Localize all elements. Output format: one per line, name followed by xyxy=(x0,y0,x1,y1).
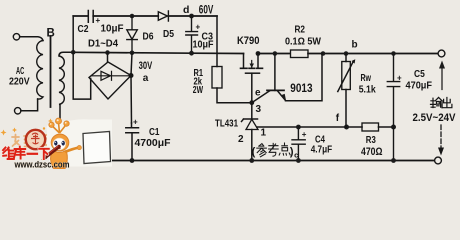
junction ref rail to C5 line xyxy=(391,125,396,130)
junction Rw bottom node f xyxy=(344,125,349,130)
svg-text:a: a xyxy=(143,73,149,84)
9013 bar xyxy=(267,89,284,91)
capacitor C2 xyxy=(88,11,93,23)
svg-text:C2: C2 xyxy=(78,23,89,35)
svg-text:D5: D5 xyxy=(163,28,174,40)
svg-text:d: d xyxy=(183,4,189,16)
node e junction xyxy=(249,100,254,105)
svg-text:3: 3 xyxy=(256,104,262,115)
svg-text:C5: C5 xyxy=(414,68,425,80)
ref rail f xyxy=(257,126,394,128)
junction emitter return xyxy=(321,51,326,56)
AC source terminal top xyxy=(13,34,19,40)
svg-text:220V: 220V xyxy=(9,76,30,88)
svg-text:b: b xyxy=(352,40,358,51)
svg-text:+: + xyxy=(302,130,307,139)
junction 9013 base xyxy=(273,51,278,56)
watermark white backdrop xyxy=(47,119,112,166)
junction secondary/C2 xyxy=(71,50,76,55)
wire bridge right corner to C1 xyxy=(131,53,132,123)
K790 gate plate xyxy=(246,72,260,74)
watermark red stamp xyxy=(26,130,45,149)
wire C2 riser xyxy=(72,16,74,52)
TL431 cathode lead xyxy=(251,103,253,119)
resistor R3 xyxy=(362,123,379,131)
K790 channel segments xyxy=(241,67,263,69)
svg-text:c: c xyxy=(294,150,298,159)
MOSFET K790 drain stub xyxy=(243,54,245,68)
transformer primary winding xyxy=(37,41,43,100)
junction C1 bottom xyxy=(130,158,135,163)
Rw lead bottom xyxy=(345,90,347,128)
wire R1 bottom to node e xyxy=(217,88,252,103)
TL431 triangle xyxy=(246,119,258,129)
30V rail xyxy=(73,52,243,53)
junction bridge right corner node a xyxy=(129,73,134,78)
svg-text:10μF: 10μF xyxy=(193,39,214,51)
wire secondary bottom to ground rail xyxy=(59,104,61,160)
svg-text:R3: R3 xyxy=(366,134,376,146)
svg-text:K790: K790 xyxy=(237,35,260,47)
svg-text:4.7μF: 4.7μF xyxy=(311,143,333,155)
emitter return wire xyxy=(286,54,323,101)
svg-text:(: ( xyxy=(252,146,256,158)
junction D6 bottom xyxy=(130,51,135,56)
TL431 cathode bar xyxy=(242,119,258,122)
svg-text:60V: 60V xyxy=(199,5,214,17)
svg-text:0.1Ω 5W: 0.1Ω 5W xyxy=(285,35,321,47)
wire bridge left corner loop xyxy=(73,52,91,99)
wire AC top to primary xyxy=(20,37,43,41)
diode D5 xyxy=(158,11,168,21)
svg-text:B: B xyxy=(47,27,55,39)
svg-text:470μF: 470μF xyxy=(406,80,433,92)
svg-text:+: + xyxy=(196,23,201,32)
watermark red hanzi wei ku yi xia halo xyxy=(3,147,49,159)
junction C5 bottom ground xyxy=(391,158,396,163)
svg-text:9013: 9013 xyxy=(290,83,312,95)
AC source terminal bottom xyxy=(15,108,21,114)
hanzi (can kao dian) reference point label xyxy=(252,143,299,159)
resistor R1 xyxy=(212,67,222,89)
watermark white board xyxy=(83,132,111,164)
top rail left segment xyxy=(73,15,88,17)
watermark mascot head xyxy=(51,134,69,151)
junction C4 top xyxy=(296,125,301,130)
K790 gate lead to node e xyxy=(251,73,253,103)
9013 emitter diagonal xyxy=(278,91,286,101)
junction C4 bottom xyxy=(296,158,301,163)
svg-text:D6: D6 xyxy=(143,31,154,43)
output up arrow xyxy=(441,67,443,90)
potentiometer Rw body xyxy=(342,62,351,90)
svg-text:e: e xyxy=(255,87,261,98)
watermark sparkle stars xyxy=(1,119,71,137)
svg-text:2.5V~24V: 2.5V~24V xyxy=(413,112,457,124)
node at D6 top xyxy=(130,14,135,19)
capacitor C1 xyxy=(126,123,139,161)
wire secondary top to node xyxy=(59,52,73,56)
svg-text:2W: 2W xyxy=(193,85,204,96)
junction bridge top stub xyxy=(105,50,110,55)
svg-text:+: + xyxy=(397,74,402,83)
svg-text:www.dzsc.com: www.dzsc.com xyxy=(14,160,70,170)
output terminal plus xyxy=(438,50,445,57)
output down arrow xyxy=(440,125,442,149)
node d xyxy=(189,14,194,19)
svg-text:+: + xyxy=(133,118,138,127)
watermark mascot pen xyxy=(41,146,59,161)
bridge top stub xyxy=(107,53,109,62)
diode D6 xyxy=(127,16,138,53)
capacitor C4 xyxy=(292,127,305,161)
svg-text:2: 2 xyxy=(238,134,244,145)
bridge inner diode xyxy=(92,71,130,80)
svg-text:470Ω: 470Ω xyxy=(361,146,383,158)
wire AC bottom to primary xyxy=(21,99,38,111)
watermark pale hanzi xyxy=(12,134,51,147)
potentiometer Rw lead top xyxy=(345,54,347,62)
source rail K790 to output xyxy=(258,53,290,55)
resistor R2 xyxy=(291,50,309,58)
svg-text:R2: R2 xyxy=(295,24,306,36)
junction TL431 anode ground xyxy=(249,158,254,163)
K790 source stub xyxy=(257,54,259,68)
node b junction xyxy=(344,51,349,56)
top rail D5 to corner xyxy=(168,15,217,17)
svg-text:1: 1 xyxy=(261,128,267,139)
svg-text:30V: 30V xyxy=(139,60,153,72)
bottom ground rail xyxy=(60,160,435,162)
bridge rectifier D1~D4 diamond xyxy=(89,62,131,99)
TL431 anode lead xyxy=(251,130,253,161)
top rail C2 to D6 node to D5 xyxy=(93,15,158,17)
watermark red hanzi wei ku yi xia xyxy=(3,147,49,159)
junction K790 source xyxy=(256,51,261,56)
junction C3 bottom xyxy=(189,51,194,56)
Rw wiper arrow xyxy=(338,62,353,92)
svg-text:TL431: TL431 xyxy=(215,118,238,130)
svg-text:5.1k: 5.1k xyxy=(359,83,376,95)
9013 emitter arrowhead xyxy=(281,94,287,101)
transformer core xyxy=(50,36,52,107)
wire 60V corner down to R1 xyxy=(216,16,218,67)
transformer secondary winding xyxy=(59,56,64,104)
capacitor C5 xyxy=(387,54,399,161)
output terminal minus xyxy=(435,157,442,164)
paper background xyxy=(0,0,460,169)
9013 collector diagonal to node e xyxy=(252,91,270,103)
junction C5 top xyxy=(391,51,396,56)
capacitor C3 xyxy=(186,16,198,53)
hanzi output label (shu chu) xyxy=(431,97,452,107)
rail R2 to output terminal xyxy=(308,53,438,55)
K790 substrate arrow xyxy=(251,61,253,68)
svg-text:10μF: 10μF xyxy=(101,23,125,35)
svg-text:D1~D4: D1~D4 xyxy=(88,39,118,50)
watermark mascot crown xyxy=(49,118,69,133)
watermark mascot body and arms xyxy=(51,146,82,170)
svg-text:4700μF: 4700μF xyxy=(135,137,172,149)
transistor 9013 base lead xyxy=(274,54,276,91)
